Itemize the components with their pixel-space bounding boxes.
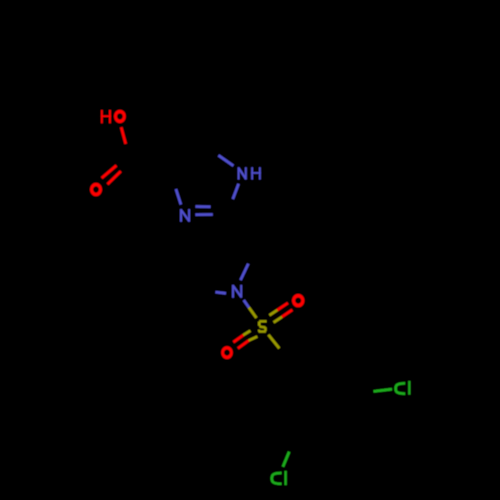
bond S-C(aryl), yellow half near S [268,335,279,349]
bond C(aryl)-Cl right, green half near Cl [374,389,393,391]
bond S=O lower-left, offset line yellow half [243,331,250,335]
glyph C of Cl bottom [284,471,286,485]
atom label NH (imidazole N1-H) [238,167,247,179]
bond N3=C2 imidazole, inner offset line blue half [196,205,211,208]
bond C(aryl)-Cl bottom, green half near Cl [283,452,289,467]
atom label O (carbonyl oxygen) [90,183,102,196]
bond N3=C2 imidazole, main line blue half [195,213,213,216]
glyph S [259,320,266,323]
atom label N (imidazole N3) [180,209,190,222]
bond S=O upper-right, offset line yellow half [269,310,277,315]
atom label HO (hydroxyl oxygen) [101,110,111,123]
invisible carbon skeleton (black on black, as in source rendering) [132,13,358,436]
glyph N of NH [238,167,240,179]
bond S=O upper-right, main line red half [282,310,292,317]
bond CH2-N amine, blue half near N [241,264,249,281]
glyph H of NH [251,167,253,179]
glyph C of Cl right [408,381,410,395]
atom label O (sulfonyl O upper right) [292,294,304,307]
bond C=O carbonyl, main line red half [108,171,121,184]
bond N-S, yellow half near S [249,308,257,318]
bond C5-N1 imidazole, blue half near NH [218,155,233,166]
atom label O (sulfonyl O lower left) [221,346,233,359]
bond C4-C(carboxyl) [132,161,171,173]
bond C2-CH2 [227,214,256,251]
atom label Cl (chlorine right) [396,383,406,393]
glyph N sulfonamide [232,285,234,298]
bond C=O carbonyl, offset line red half [102,166,117,179]
atom label S (sulfonyl sulfur) [258,320,267,333]
bond O(H)-C carboxyl, red half near O [121,127,126,144]
bond N-S, blue half near N [244,300,249,307]
glyph O sulfonyl lower [221,346,233,359]
glyph O carbonyl [90,183,102,196]
bond S=O lower-left, offset line red half [233,335,243,342]
atom label N (sulfonamide nitrogen) [232,285,242,298]
bond C5-phenyl [204,103,207,148]
bond S=O lower-left, main line red half [238,341,249,349]
atom label Cl (chlorine bottom) [272,473,282,484]
glyph O of HO [114,110,126,123]
bond C4-C5 [171,148,205,173]
phenyl ring (top, carbons) [166,13,244,103]
bond N1-C2 imidazole, blue half near NH [233,184,239,199]
bond S=O lower-left, main line yellow half [249,337,258,341]
glyph O sulfonyl upper [292,294,304,307]
benzene ring 2 (dichlorophenyl carbons) [271,359,358,435]
bond N-CH3, blue half near N [215,292,226,293]
bond S=O upper-right, offset line red half [277,303,288,310]
glyph H of HO [101,110,103,123]
glyph N3 [180,209,182,222]
bond S=O upper-right, main line yellow half [274,317,282,323]
bond C4-N3 imidazole, blue half near N [176,189,181,205]
